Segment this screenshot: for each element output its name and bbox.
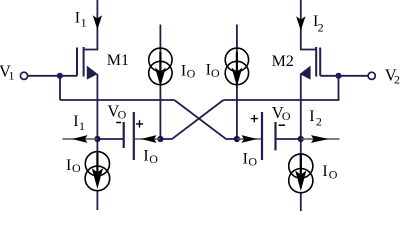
- svg-text:I: I: [66, 157, 71, 174]
- svg-text:2: 2: [318, 21, 324, 35]
- minus C1: [116, 122, 121, 124]
- capacitor C1 plates: [124, 112, 134, 160]
- label V2: [385, 65, 400, 86]
- wire cap C1 left lead: [97, 138, 123, 140]
- minus C2: [279, 124, 286, 126]
- label I1 top: [75, 9, 87, 29]
- label I2 top: [313, 13, 324, 34]
- terminal V1: [20, 72, 27, 79]
- wire left rail: [60, 99, 174, 101]
- wire bottom-left source drop: [96, 139, 98, 172]
- arrow IO into C2: [237, 138, 261, 140]
- arrow IO into C1: [135, 138, 160, 140]
- label VO left: [107, 101, 126, 121]
- wire V1 gate lead: [28, 75, 77, 77]
- svg-text:O: O: [329, 167, 338, 181]
- arrow stub I1 bottom-left: [63, 138, 98, 140]
- label VO right: [272, 103, 291, 123]
- svg-text:O: O: [187, 66, 196, 80]
- wire mid-right current source stub: [236, 25, 238, 74]
- svg-text:I: I: [73, 113, 78, 130]
- wire cross-coupling diagonal B: [160, 100, 223, 139]
- label IO at C1: [143, 148, 158, 166]
- label IO at C2: [243, 150, 258, 168]
- svg-text:I: I: [181, 62, 186, 79]
- svg-text:I: I: [75, 9, 80, 26]
- wire mid-left current source stub: [159, 25, 161, 74]
- label I2 bottom: [309, 108, 322, 128]
- svg-text:O: O: [118, 108, 127, 122]
- svg-text:1: 1: [9, 69, 15, 83]
- label IO bottom-right: [322, 163, 337, 181]
- transistor M1: [77, 47, 98, 80]
- plus C1: [136, 120, 143, 127]
- wire mid-left source to node: [159, 80, 161, 139]
- wire node A drop from gate lead: [59, 76, 61, 100]
- svg-text:I: I: [309, 108, 314, 125]
- wire M1 source vertical: [96, 74, 98, 139]
- label IO mid-left: [181, 62, 196, 80]
- svg-text:2: 2: [316, 115, 322, 129]
- arrow I2 top: [296, 16, 305, 30]
- plus C2: [251, 115, 258, 122]
- wire bottom-right source tail: [300, 193, 302, 212]
- svg-text:M1: M1: [107, 52, 129, 69]
- current source IO bottom-right: [289, 154, 313, 193]
- label V1: [0, 61, 15, 82]
- label IO bottom-left: [66, 157, 81, 175]
- arrow I1 top: [93, 15, 102, 29]
- svg-text:M2: M2: [272, 53, 294, 70]
- wire cap C2 right lead: [276, 138, 301, 140]
- svg-text:I: I: [243, 150, 248, 167]
- current source IO bottom-left: [85, 152, 110, 191]
- svg-text:O: O: [72, 161, 81, 175]
- wire bottom-right source drop: [300, 139, 302, 172]
- wire bottom-left source tail: [96, 191, 98, 211]
- node dot bottom-midright: [234, 136, 240, 142]
- current source IO mid-right: [225, 48, 248, 85]
- svg-text:I: I: [143, 148, 148, 165]
- svg-text:2: 2: [394, 73, 400, 87]
- current source IO mid-left: [149, 48, 172, 85]
- label I1 bottom: [73, 113, 85, 133]
- capacitor C2 plates: [262, 112, 276, 160]
- svg-text:I: I: [322, 163, 327, 180]
- transistor M2: [300, 47, 321, 80]
- node dot gate-left: [57, 73, 63, 79]
- wire I2 drain vertical with drain lead of M2: [301, 0, 316, 50]
- wire cross-coupling diagonal A: [174, 100, 237, 139]
- svg-text:O: O: [211, 66, 220, 80]
- svg-text:O: O: [149, 152, 158, 166]
- svg-text:O: O: [248, 155, 257, 169]
- node dot bottom-left: [94, 136, 100, 142]
- wire V2 gate lead: [320, 75, 368, 77]
- svg-text:1: 1: [81, 16, 87, 30]
- label IO mid-right: [206, 62, 220, 80]
- wire right rail: [223, 76, 338, 100]
- node dot bottom-right: [298, 136, 304, 142]
- arrow in IO bottom-right: [295, 171, 306, 192]
- node dot bottom-midleft: [157, 136, 163, 142]
- arrow in IO mid-left: [155, 68, 166, 87]
- svg-text:O: O: [282, 109, 291, 123]
- node dot gate-right: [335, 73, 341, 79]
- arrow in IO mid-right: [232, 68, 243, 87]
- wire mid-right source to node: [236, 80, 238, 139]
- terminal V2: [368, 72, 375, 79]
- arrow stub I2 bottom-right: [301, 138, 340, 140]
- wire I1 drain vertical with drain lead of M1: [84, 0, 98, 50]
- wire M2 source vertical: [300, 74, 302, 139]
- arrow in IO bottom-left: [92, 168, 103, 189]
- svg-text:1: 1: [79, 119, 85, 133]
